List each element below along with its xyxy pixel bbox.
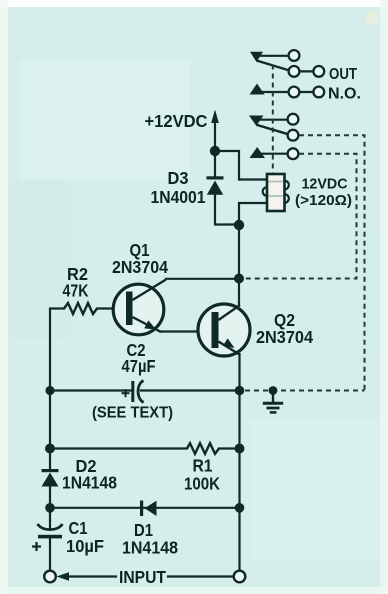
pole1 switch arm	[257, 61, 290, 71]
svg-text:100K: 100K	[184, 473, 220, 493]
wire pole1 common row link to OUT	[299, 70, 314, 72]
wire R1 row right lead	[219, 447, 240, 449]
node dot (239,225)	[234, 220, 244, 230]
input terminal right	[234, 571, 246, 583]
wire right rail node(239,448) to node(239,507.5)	[238, 449, 240, 508]
node dot (239,448)	[235, 444, 245, 454]
wire pole1 NO row link	[299, 91, 314, 93]
svg-text:(>120Ω): (>120Ω)	[295, 192, 352, 209]
ground	[263, 391, 283, 412]
diode D3 1N4001	[207, 176, 224, 195]
wire dashed pole2 common to right	[299, 135, 365, 390]
wire C1 bottom plate to input terminal	[49, 539, 51, 572]
wire dashed mechanical linkage	[272, 65, 274, 174]
relay contacts pole 2	[249, 114, 298, 159]
resistor R1 100K	[187, 443, 219, 454]
wire Q1 collector horizontal to node(239,278.5)	[166, 278, 239, 280]
wire left rail node(50,390) to node(50,448)	[49, 391, 51, 449]
wire C2 line right segment to node(239,390)	[141, 389, 240, 391]
svg-text:R1: R1	[193, 455, 213, 475]
wire node(50,507.5) to C1 top plate	[49, 508, 51, 529]
pole2 switch arm	[257, 125, 289, 135]
wire D3 top lead	[214, 151, 216, 177]
wire D1 row	[50, 507, 240, 509]
svg-text:12VDC: 12VDC	[302, 176, 348, 193]
wire left rail R2 corner down to node(50,390)	[50, 309, 64, 391]
pole2 NO terminal circle	[288, 148, 299, 159]
wire right rail node(239,390) to node(239,448)	[238, 390, 240, 449]
svg-text:1N4148: 1N4148	[62, 472, 117, 492]
svg-text:1N4148: 1N4148	[122, 537, 178, 557]
wire Q1 emitter to Q2 base	[160, 330, 212, 332]
svg-text:C1: C1	[69, 518, 88, 538]
pole1 NO outer terminal circle	[313, 87, 324, 98]
dashed wires	[245, 65, 365, 391]
svg-text:D3: D3	[168, 168, 189, 188]
svg-text:INPUT: INPUT	[119, 567, 166, 587]
transistor Q1 2N3704	[113, 280, 166, 335]
capacitor C2 47uF	[122, 381, 144, 403]
wire D2 anode to node(50,507.5)	[49, 486, 51, 508]
node dot (50,448)	[45, 444, 55, 454]
capacitor C1 10uF	[32, 524, 63, 551]
wire node(215,151) to relay top	[215, 151, 267, 180]
pole2 NC fixed contact triangle	[249, 116, 264, 126]
wire dashed pole2 NO to node(239,278.5)	[245, 154, 357, 279]
wire pole1 NC row	[257, 55, 289, 57]
wire D3 bottom lead to node(239,225)	[215, 195, 235, 225]
node ground dot	[269, 386, 278, 395]
pole1 NC terminal circle	[289, 50, 300, 61]
svg-text:1N4001: 1N4001	[151, 187, 206, 207]
diode D2 1N4148	[42, 469, 59, 487]
wire pole1 NO row	[259, 91, 289, 93]
pole1 OUT terminal circle	[313, 66, 324, 77]
pole2 NC terminal circle	[288, 114, 299, 125]
resistor R2 47K	[64, 303, 97, 314]
transistor Q2 2N3704	[198, 304, 250, 356]
node dot (239,278.5)	[234, 274, 244, 284]
wire Q1 base lead from R2	[97, 307, 126, 309]
wire R1 row left lead	[50, 447, 187, 449]
wire node(239,278.5) to Q2 collector	[238, 279, 240, 305]
wire left rail node(50,448) to D2 cathode	[49, 449, 51, 470]
pole2 common terminal circle	[288, 130, 299, 141]
+12VDC supply arrow	[211, 110, 219, 124]
wire bottom input line left	[68, 575, 116, 577]
wire relay coil bottom to node(239,225)	[239, 203, 267, 221]
svg-text:OUT: OUT	[329, 66, 357, 83]
node dot (215,151)	[210, 146, 220, 156]
wire pole2 NO row	[259, 153, 288, 155]
svg-text:N.O.: N.O.	[328, 85, 361, 102]
diode D1 1N4148	[140, 501, 157, 517]
svg-text:2N3704: 2N3704	[256, 327, 313, 347]
svg-text:47µF: 47µF	[122, 356, 156, 376]
wire bottom input line right	[168, 575, 234, 577]
wire pole2 NC row	[257, 119, 288, 121]
svg-text:10µF: 10µF	[66, 536, 104, 556]
pole1 common terminal circle	[289, 66, 300, 77]
wire +12VDC arrow stem	[214, 122, 216, 151]
wire C2 line left segment	[50, 389, 132, 391]
node dot (239,390)	[235, 386, 245, 396]
pole1 NO terminal circle	[289, 87, 300, 98]
node dot (50,507.5)	[45, 503, 55, 513]
relay coil K1	[263, 174, 289, 211]
node dot (239,507.5)	[235, 503, 245, 513]
svg-text:(SEE TEXT): (SEE TEXT)	[92, 404, 173, 421]
wire Q2 emitter down to node(239,390)	[238, 354, 240, 390]
svg-text:2N3704: 2N3704	[112, 257, 168, 277]
wire dashed ground run at y390	[245, 390, 365, 392]
input terminal left	[44, 571, 56, 583]
node dot (50,390)	[45, 386, 54, 395]
input arrow	[57, 572, 70, 580]
pole2 NO fixed contact triangle	[250, 147, 266, 158]
pole1 NC fixed contact triangle	[250, 52, 263, 62]
wire node(239,225) down to node(239,278.5)	[238, 225, 240, 279]
pole1 NO fixed contact triangle	[250, 84, 265, 95]
relay contacts pole 1	[250, 50, 325, 97]
svg-text:+12VDC: +12VDC	[145, 111, 208, 131]
wire right rail node(239,507.5) to output terminal	[238, 508, 240, 572]
svg-text:47K: 47K	[63, 280, 89, 300]
